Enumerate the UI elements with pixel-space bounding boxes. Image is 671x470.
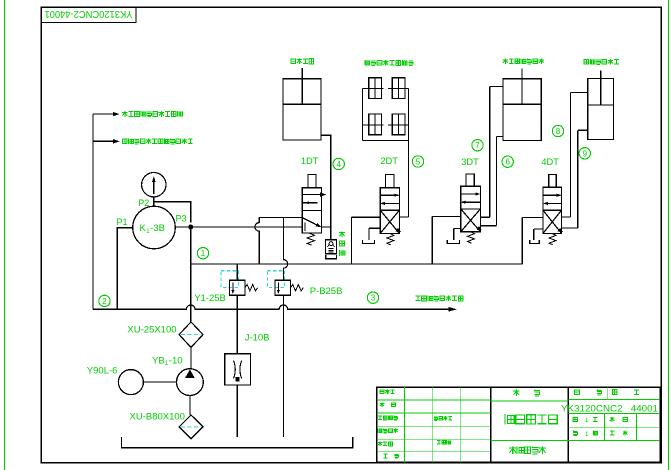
valve 2DT flow arrows: [380, 194, 398, 196]
wire filter to pump YB1-10: [190, 347, 192, 368]
svg-text:2DT: 2DT: [380, 156, 398, 166]
spring P-B25B: [291, 285, 304, 291]
wire riser with hop to 1DT port line: [255, 218, 259, 264]
clamp cylinder A: [369, 78, 382, 99]
svg-text:J-10B: J-10B: [245, 333, 270, 344]
title block main dividers: [491, 387, 569, 462]
wire P3 supply: [175, 226, 302, 228]
electric motor Y90L-6: [118, 370, 143, 395]
wire lube arrow 1: [93, 113, 113, 115]
junction node dot: [189, 225, 193, 229]
node 9 circle: [579, 148, 590, 159]
label lube line 1: [122, 111, 127, 117]
relief valve P-B25B: [275, 280, 291, 295]
wire clamp group to 2DT: [408, 89, 410, 217]
node 3 circle: [367, 292, 378, 303]
tank symbol 3DT: [447, 240, 459, 244]
svg-text:YK3120CNC2 44001: YK3120CNC2 44001: [561, 403, 658, 413]
svg-text:3DT: 3DT: [461, 157, 479, 167]
wire 3DT B port to cylinder: [480, 137, 503, 226]
piston rod work cylinder: [600, 71, 602, 106]
spring 4DT: [549, 233, 556, 245]
tank symbol 4DT: [530, 240, 540, 243]
node 8 circle: [552, 125, 563, 136]
svg-text:XU-25X100: XU-25X100: [127, 325, 176, 336]
pressure gauge P2: [142, 173, 166, 197]
title block right grid: [568, 413, 660, 440]
title block border: [377, 387, 660, 462]
label lube worktable points: [416, 296, 421, 301]
wire rail to 3DT: [432, 217, 461, 264]
title block middle grid: [491, 401, 569, 441]
valve 4DT crossed paths: [543, 210, 562, 233]
svg-text:-3B: -3B: [150, 223, 165, 234]
piston rod balance cylinder: [301, 68, 303, 104]
label work clamp cylinder: [584, 59, 588, 64]
svg-text:XU-B80X100: XU-B80X100: [130, 412, 185, 423]
valve 1DT crossed path: [302, 218, 319, 226]
wire 2DT right port: [399, 216, 408, 218]
clamp group piping: [362, 89, 408, 141]
solenoid 4DT: [549, 175, 557, 188]
title block drawing title: [505, 414, 514, 424]
label column clamp cylinder: [503, 59, 508, 64]
svg-text:Y1-25B: Y1-25B: [194, 293, 226, 304]
valve 1DT body: [302, 188, 321, 233]
svg-text:1: 1: [585, 417, 589, 424]
relief valve Y1-25B: [229, 280, 245, 295]
solenoid 1DT: [308, 174, 316, 187]
svg-text:1: 1: [201, 249, 206, 258]
svg-text:4: 4: [336, 160, 341, 169]
wire supply rail node 1: [191, 263, 523, 265]
green margin line right: [668, 0, 670, 470]
svg-text:P1: P1: [117, 217, 128, 227]
filter XU-25X100: [179, 322, 203, 348]
filter XU-B80X100: [179, 415, 203, 439]
spring 3DT: [468, 232, 475, 244]
valve 4DT flow arrows: [543, 194, 561, 196]
safety valve: [326, 240, 337, 254]
wire 3DT A port to cylinder: [480, 87, 503, 218]
spring Y1-25B: [245, 285, 258, 291]
solenoid 2DT: [386, 175, 395, 188]
tank symbol safety valve: [326, 255, 337, 259]
valve 1DT flow arrows: [302, 194, 321, 196]
svg-text:7: 7: [475, 141, 480, 150]
valve 3DT flow arrows: [461, 193, 480, 195]
wire rail to Y1-25B: [236, 264, 238, 280]
title block machine name: [509, 446, 516, 454]
valve 3DT body: [461, 186, 481, 231]
svg-text:Y90L-6: Y90L-6: [87, 366, 118, 377]
svg-text:8: 8: [556, 127, 561, 136]
wire to P-B25B with jog over rail: [283, 218, 287, 281]
svg-text:YB: YB: [152, 355, 165, 366]
label safety valve vertical: [339, 231, 345, 237]
node 2 circle: [99, 295, 110, 306]
column clamp cylinder: [503, 79, 541, 141]
valve 2DT body: [380, 188, 399, 234]
wire J-10B to tank: [236, 385, 238, 437]
wire annotation riser: [92, 114, 94, 309]
title block right header: [568, 398, 660, 400]
wire 4DT drain: [534, 229, 543, 240]
proportional box Y1-25B: [221, 271, 239, 288]
svg-text:5: 5: [416, 158, 421, 167]
wire P2 branch to P3 junction: [154, 202, 191, 223]
valve 4DT body: [543, 187, 562, 233]
svg-text:P-B25B: P-B25B: [310, 286, 343, 297]
proportional box P-B25B: [267, 271, 284, 288]
svg-text:2: 2: [102, 297, 107, 306]
tank symbol 2DT: [362, 240, 374, 243]
node 7 circle: [472, 140, 483, 151]
svg-text:P3: P3: [176, 214, 187, 224]
svg-text:-10: -10: [169, 355, 183, 366]
solenoid 3DT: [466, 174, 474, 186]
svg-text:3: 3: [371, 294, 376, 303]
wire rail to 4DT: [522, 217, 543, 264]
title block left row labels: [380, 390, 384, 394]
wire 2DT drain: [369, 228, 380, 240]
wire P3 junction down to filter: [190, 227, 192, 322]
clamp cylinder D: [392, 114, 405, 135]
node 1 circle: [197, 248, 208, 259]
title block header name: [513, 390, 519, 396]
piston rod column cylinder: [521, 68, 523, 104]
label balance cylinder: [291, 59, 296, 64]
wire lube arrow 2: [93, 140, 113, 142]
svg-text:1DT: 1DT: [301, 156, 319, 166]
tank symbol main: [122, 437, 353, 448]
wire P1 to lube line: [117, 228, 133, 309]
wire gauge to pump: [153, 197, 155, 206]
svg-text:4DT: 4DT: [541, 157, 559, 167]
wire 1DT right port: [322, 226, 331, 228]
title block sheet cells: [573, 417, 577, 421]
wire Y1-25B to throttle J-10B: [236, 295, 238, 354]
valve 2DT crossed paths: [380, 210, 399, 233]
pump YB1-10: [177, 369, 204, 396]
drawing number box top-left: [41, 7, 136, 23]
node 4 circle: [333, 158, 344, 169]
wire 4DT B port to cylinder: [562, 130, 588, 228]
svg-text:P2: P2: [138, 198, 149, 208]
spring 1DT: [307, 233, 314, 245]
svg-text:YK3120CNC2-44001: YK3120CNC2-44001: [44, 8, 132, 20]
wire lube distribution line with hops: [93, 305, 449, 309]
balance cylinder: [283, 79, 321, 140]
clamp cylinder B: [392, 78, 405, 99]
node 6 circle: [502, 156, 513, 167]
wire pump suction: [189, 396, 191, 415]
label lube line 2: [123, 139, 128, 144]
valve 3DT crossed paths: [461, 209, 481, 232]
title block signature cells: [434, 416, 438, 420]
wire rail to 2DT: [352, 217, 381, 264]
spring 2DT: [387, 233, 394, 245]
green margin line left: [4, 0, 6, 470]
wire 4DT A port to cylinder: [562, 93, 588, 217]
svg-text:6: 6: [505, 158, 510, 167]
work clamp cylinder: [588, 79, 614, 140]
svg-text:1: 1: [585, 431, 589, 438]
node 5 circle: [412, 156, 423, 167]
pump K1-3B: [133, 206, 176, 249]
shaft motor to pump: [143, 381, 176, 383]
wire P-B25B drain to tank: [282, 295, 284, 437]
title block left grid: [377, 400, 491, 452]
wire upper port line to 1DT: [259, 217, 302, 219]
clamp cylinder C: [369, 114, 382, 135]
throttle valve J-10B: [225, 354, 251, 385]
wire balance cylinder to 1DT: [321, 135, 331, 240]
svg-text:9: 9: [583, 149, 588, 158]
label tool slide clamp cylinders: [365, 60, 370, 65]
wire 3DT drain: [454, 229, 461, 240]
